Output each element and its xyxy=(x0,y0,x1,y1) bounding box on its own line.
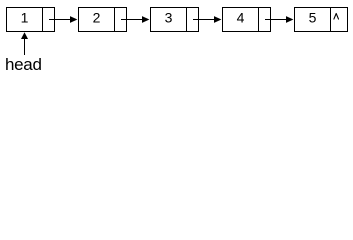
wire arrow 3 xyxy=(193,16,221,23)
node 4 box xyxy=(223,8,271,32)
node 4 divider xyxy=(258,8,260,32)
wire arrow 1 xyxy=(49,16,77,23)
node 5 box xyxy=(295,8,348,32)
node 5 null marker ^ xyxy=(334,14,339,20)
node 3 box xyxy=(151,8,199,32)
svg-text:5: 5 xyxy=(309,10,317,26)
node 1 box xyxy=(7,8,55,32)
node 2 divider xyxy=(114,8,116,32)
node 1 divider xyxy=(42,8,44,32)
node 5 divider xyxy=(330,8,332,32)
node 3 divider xyxy=(186,8,188,32)
wire arrow 4 xyxy=(265,16,293,23)
svg-text:3: 3 xyxy=(165,10,173,26)
svg-text:4: 4 xyxy=(237,10,245,26)
svg-text:2: 2 xyxy=(93,10,101,26)
head pointer arrow xyxy=(21,32,28,55)
wire arrow 2 xyxy=(121,16,149,23)
node 2 box xyxy=(79,8,127,32)
svg-text:head: head xyxy=(5,55,42,72)
svg-text:1: 1 xyxy=(21,10,29,26)
